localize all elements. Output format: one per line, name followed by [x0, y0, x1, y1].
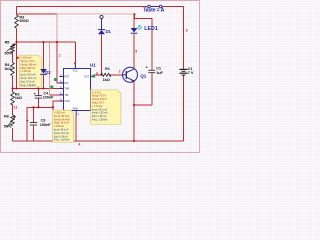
svg-text:100nF: 100nF [40, 122, 51, 127]
probe tooltip left [19, 55, 42, 87]
svg-text:R5: R5 [5, 40, 11, 45]
svg-text:1kΩ: 1kΩ [103, 77, 110, 82]
junction CON net [52, 106, 54, 108]
capacitor C3 [26, 117, 51, 126]
svg-text:+: + [146, 64, 149, 69]
op-amp U1 555 timer [60, 62, 97, 115]
junction C3 top [33, 106, 35, 108]
wire jog to C1 [135, 14, 152, 70]
svg-text:U1: U1 [90, 62, 96, 67]
junction C4 top [37, 88, 39, 90]
battery V1 [179, 66, 193, 75]
potentiometer R5 [4, 40, 15, 56]
transistor Q1 [123, 67, 147, 82]
junction D1 on OUT net [101, 74, 103, 76]
svg-text:OUT: OUT [84, 76, 90, 79]
diode D1 [98, 15, 112, 34]
svg-text:TRI: TRI [64, 94, 68, 97]
wire left end down to rail [26, 107, 28, 141]
wire R6 bottom to rail [12, 128, 14, 141]
junction D2 anode on node A [43, 41, 45, 43]
wire C1 bottom lead [151, 73, 153, 105]
svg-text:R6: R6 [4, 114, 10, 119]
svg-text:RST: RST [64, 76, 69, 79]
junction DIS net on node A [56, 41, 58, 43]
svg-text:+: + [26, 118, 29, 123]
svg-text:D1: D1 [106, 29, 112, 34]
wire bottom rail [13, 140, 184, 142]
wire C3 bottom lead [33, 125, 35, 141]
svg-text:3: 3 [96, 71, 98, 75]
potentiometer R6 [4, 114, 16, 129]
wire C4 top lead [37, 89, 39, 96]
probe marker green 3 [92, 75, 95, 78]
wire VCC drop [75, 42, 77, 63]
wire x53 down to rail [52, 107, 54, 141]
wire emitter down [133, 82, 135, 142]
svg-text:7 V: 7 V [188, 70, 194, 75]
LED LED1 [131, 25, 158, 34]
resistor R2 [11, 91, 22, 105]
wire C4 bottom lead [37, 98, 39, 107]
wire LED top [133, 14, 135, 28]
junction emitter to C1 [133, 104, 135, 106]
wire R5 top connect [13, 43, 17, 45]
svg-text:5: 5 [135, 49, 137, 53]
wire left column vertical x=16.5 [16, 7, 18, 16]
svg-text:R1: R1 [105, 66, 111, 71]
svg-text:Taste = A: Taste = A [143, 8, 164, 14]
wire node A horizontal y42 [17, 41, 76, 43]
switch Taste = A [143, 5, 164, 13]
svg-text:D2: D2 [45, 70, 51, 75]
wire collector up to LED [133, 34, 135, 69]
probe marker red arrow [16, 56, 19, 59]
junction emitter on ground rail [133, 140, 135, 142]
junction LED branch [134, 13, 136, 15]
junction R3 bottom node A [16, 41, 18, 43]
junction left column THR net [16, 88, 18, 90]
svg-text:7: 7 [59, 54, 61, 58]
svg-text:3: 3 [186, 29, 188, 33]
wire THR horizontal y88.5 [13, 88, 64, 90]
sheet border [1, 1, 200, 153]
wire top rail left of switch [17, 6, 148, 8]
junction D2 cathode THR net [43, 88, 45, 90]
svg-text:GND: GND [73, 107, 79, 110]
svg-text:Freq.: 1.28 kHz: Freq.: 1.28 kHz [54, 139, 70, 142]
svg-text:4: 4 [78, 143, 80, 147]
wire R2 bottom to R6 [12, 104, 14, 115]
wire GND pin to rail [75, 116, 77, 142]
wire y107 horizontal [27, 106, 53, 108]
svg-text:+: + [34, 91, 37, 96]
probe marker green 1 [54, 78, 57, 81]
resistor R1 [101, 66, 111, 82]
svg-text:2: 2 [119, 70, 121, 74]
svg-text:CON: CON [64, 100, 70, 103]
svg-text:Freq.: 1.28 kHz: Freq.: 1.28 kHz [92, 119, 108, 122]
junction C4 bottom [37, 106, 39, 108]
svg-text:VCC: VCC [73, 70, 78, 73]
diode D2 [40, 69, 51, 75]
capacitor C1 [146, 64, 164, 74]
resistor R4 [4, 62, 14, 76]
svg-text:50%: 50% [4, 51, 12, 56]
svg-text:1kΩ: 1kΩ [15, 95, 22, 100]
wire R4 bottom to THR rail [12, 76, 14, 92]
svg-text:DIS: DIS [64, 82, 68, 85]
wire emitter to C1 bottom [134, 104, 152, 106]
svg-text:THR: THR [64, 88, 69, 91]
svg-text:Q1: Q1 [140, 74, 146, 79]
wire left column R5-R4 [12, 52, 14, 63]
wire TRI link [49, 43, 51, 95]
wire CON link [53, 101, 63, 107]
svg-text:Freq.: 1.28 kHz: Freq.: 1.28 kHz [20, 84, 36, 87]
wire C3 top lead [33, 107, 35, 122]
resistor R3 [15, 14, 29, 28]
svg-text:LED1: LED1 [144, 26, 158, 32]
wire second horizontal [17, 13, 58, 15]
probe tooltip right [91, 90, 121, 125]
capacitor C4 [34, 91, 54, 100]
wire top rail right of switch [162, 6, 184, 8]
wire OUT net [94, 74, 101, 76]
svg-text:1uF: 1uF [156, 70, 163, 75]
probe marker green 2 [50, 86, 53, 89]
svg-text:11: 11 [14, 106, 18, 110]
svg-text:920Ω: 920Ω [19, 18, 28, 23]
svg-text:1: 1 [77, 113, 79, 116]
wire battery vertical [183, 7, 185, 70]
svg-text:1kΩ: 1kΩ [4, 66, 11, 71]
wire D2 branch [43, 42, 45, 69]
junction R4-R2 node [12, 88, 14, 90]
wire DIS vertical x57 [56, 14, 58, 41]
wire R1 to Q1 base [109, 74, 122, 76]
wire D1 drop to OUT [101, 35, 103, 75]
svg-text:100nF: 100nF [43, 94, 54, 99]
probe tooltip middle [53, 110, 74, 142]
svg-text:50%: 50% [4, 124, 12, 129]
